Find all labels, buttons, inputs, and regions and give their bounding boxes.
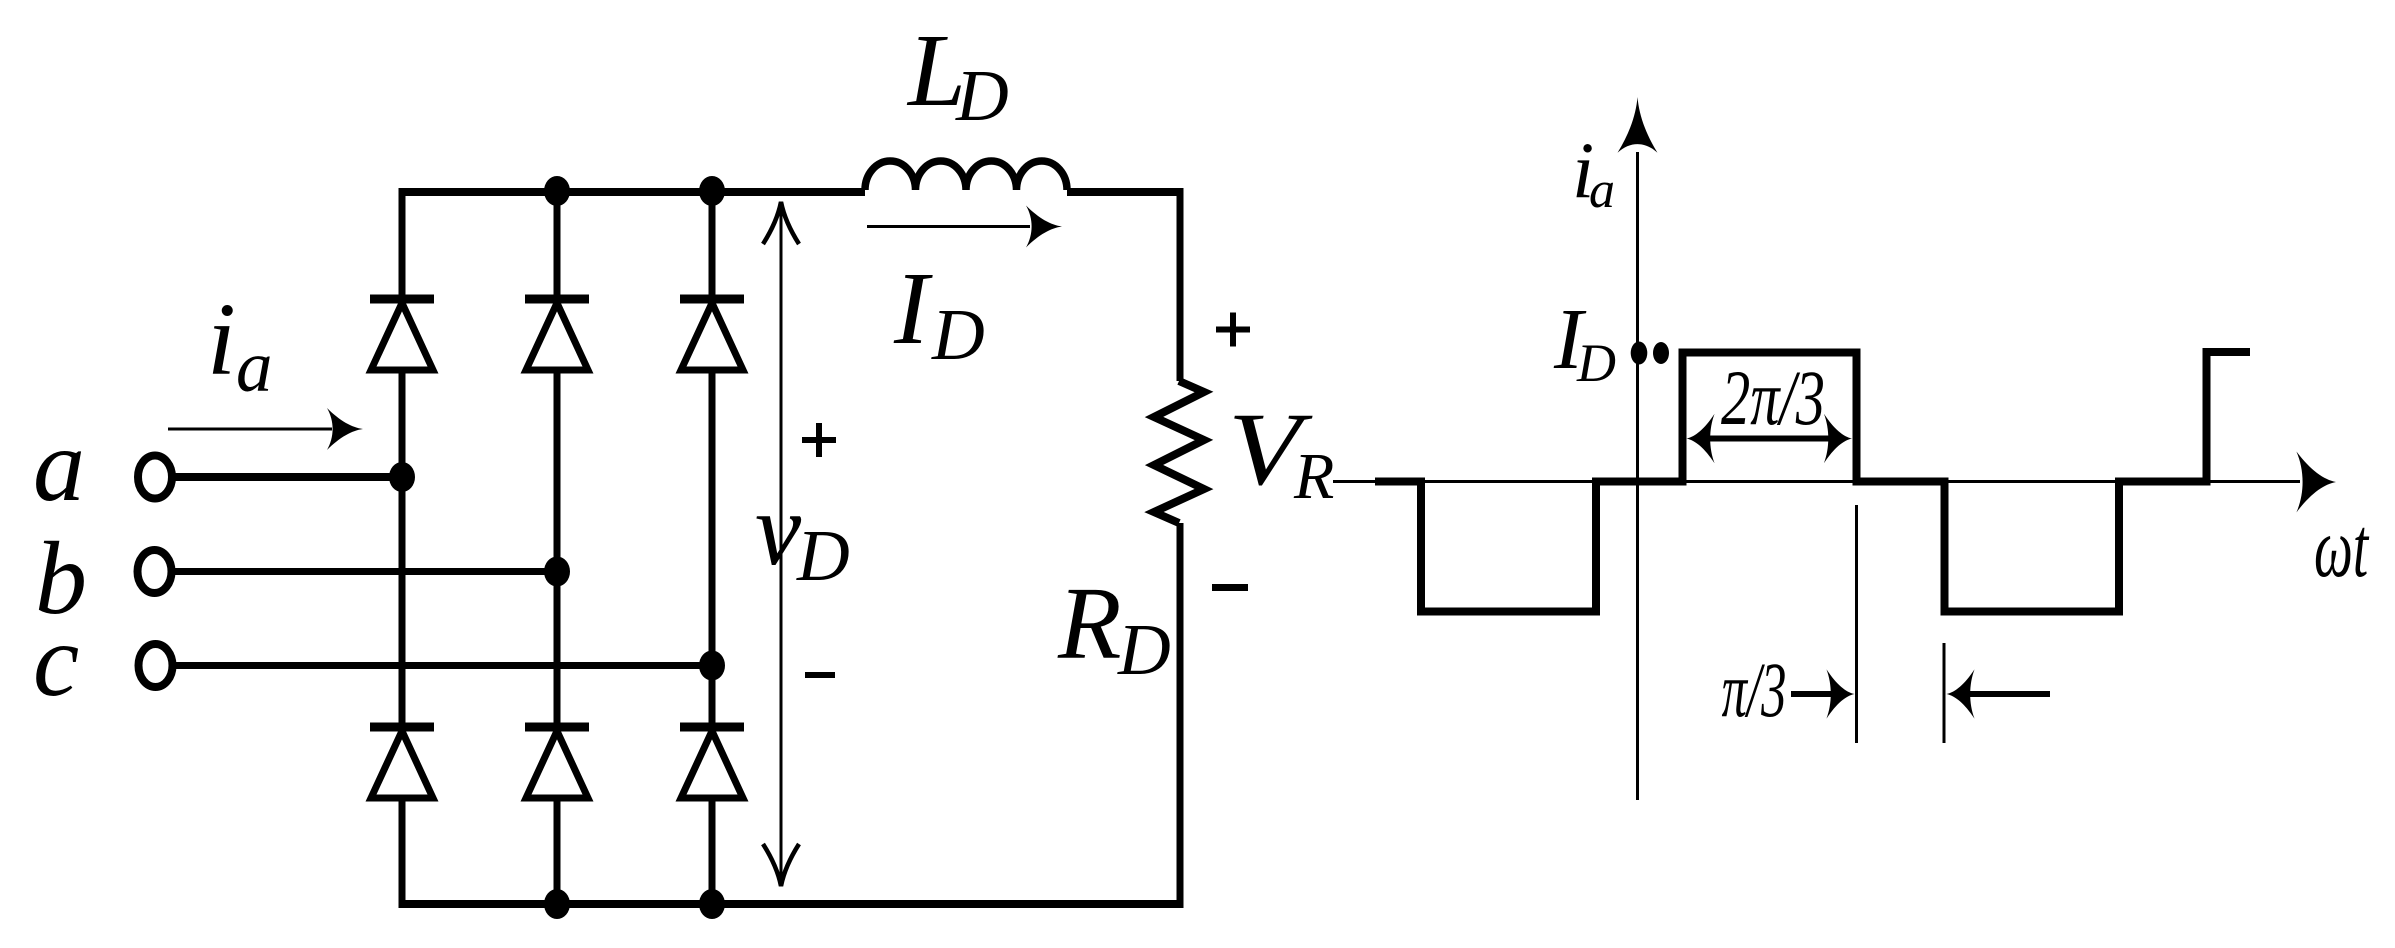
- dimension arrow pi/3 right: [1791, 669, 1855, 719]
- terminal b: [138, 550, 172, 593]
- svg-text:i: i: [207, 282, 236, 397]
- inductor L_D: [865, 161, 1067, 190]
- wire: top dc rail: [399, 188, 1184, 196]
- diode D3 top leg2: [525, 299, 589, 370]
- svg-text:I: I: [893, 251, 933, 366]
- wire b: [172, 568, 557, 575]
- svg-text:a: a: [1589, 162, 1615, 219]
- axis: wt horizontal: [1333, 480, 2300, 483]
- node: I_D level dots: [1631, 342, 1648, 365]
- svg-text:π/3: π/3: [1722, 647, 1787, 734]
- dimension arrow 2pi/3: [1687, 414, 1853, 464]
- node: wire b junction: [544, 557, 570, 587]
- svg-text:D: D: [1117, 609, 1171, 690]
- wire: bridge leg 2 (phase b): [554, 188, 561, 904]
- wire: bridge leg 3 (phase c): [709, 188, 716, 904]
- svg-text:ωt: ωt: [2314, 500, 2370, 595]
- svg-text:a: a: [33, 408, 85, 523]
- node: wire a junction: [389, 462, 415, 492]
- diode D6 bottom leg2: [525, 727, 589, 798]
- label + (V_R): [1216, 313, 1250, 347]
- svg-text:v: v: [755, 472, 802, 587]
- label - (V_R): [1212, 584, 1248, 591]
- terminal c: [139, 644, 173, 687]
- wire c: [172, 662, 712, 669]
- dimension line at 7pi/6: [1943, 643, 1946, 743]
- label - (v_D): [805, 672, 835, 678]
- wire: bottom dc rail: [399, 900, 1184, 908]
- arrow I_D: [867, 225, 1030, 228]
- wire a: [172, 473, 402, 481]
- wire: right branch bottom: [1177, 523, 1184, 904]
- resistor R_D: [1154, 381, 1204, 523]
- svg-text:D: D: [955, 55, 1009, 136]
- waveform trace i_a: [1375, 352, 2250, 612]
- svg-text:R: R: [1293, 440, 1334, 513]
- diode D4 bottom leg1: [370, 727, 434, 798]
- wire: bridge leg 1 (phase a): [399, 188, 406, 904]
- svg-text:R: R: [1057, 566, 1122, 681]
- dimension line at 5pi/6: [1855, 505, 1858, 743]
- dimension arrow pi/3 left: [1947, 669, 2051, 719]
- diode D5 top leg3: [680, 299, 744, 370]
- arrow v_D (double headed, open barbs): [763, 202, 799, 886]
- node: wire c junction: [699, 651, 725, 681]
- svg-text:a: a: [236, 326, 273, 407]
- wire: right branch top: [1177, 188, 1184, 381]
- svg-text:2π/3: 2π/3: [1721, 355, 1825, 441]
- node: bottom rail junction leg3: [699, 889, 725, 919]
- terminal a: [138, 456, 172, 499]
- arrow i_a: [168, 428, 332, 431]
- svg-text:D: D: [931, 294, 985, 375]
- svg-text:D: D: [796, 515, 850, 596]
- label + (v_D): [802, 423, 836, 457]
- svg-text:c: c: [33, 603, 79, 718]
- node: bottom rail junction leg2: [544, 889, 570, 919]
- axis: i_a vertical: [1636, 152, 1639, 800]
- diode D2 bottom leg3: [680, 727, 744, 798]
- diode D1 top leg1: [370, 299, 434, 370]
- node: top rail junction leg2: [544, 176, 570, 206]
- node: top rail junction leg3: [699, 176, 725, 206]
- svg-text:D: D: [1576, 333, 1616, 393]
